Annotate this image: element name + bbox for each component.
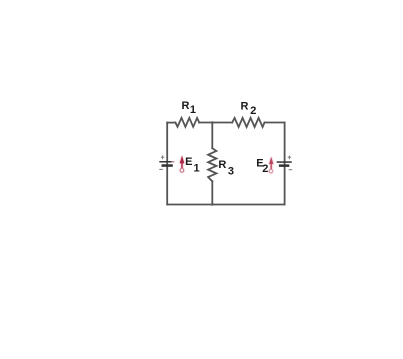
wire: top-right segment xyxy=(265,122,285,124)
emf arrow E1 halo xyxy=(179,155,184,172)
battery E2 short thick plate xyxy=(279,164,289,167)
svg-text:R: R xyxy=(241,100,249,112)
emf arrow E1 xyxy=(180,156,185,173)
battery E2 xyxy=(277,155,293,169)
resistor R1 xyxy=(175,118,199,127)
svg-text:2: 2 xyxy=(262,163,268,175)
battery E1 short thick plate xyxy=(162,164,173,167)
svg-text:R: R xyxy=(218,159,226,171)
wire: bottom horizontal xyxy=(167,204,284,206)
battery E2 long plate xyxy=(277,161,292,163)
svg-text:3: 3 xyxy=(228,166,234,178)
emf arrow E2 xyxy=(269,157,273,173)
wire: right vertical branch xyxy=(284,123,286,205)
battery E1 plus sign xyxy=(161,155,164,159)
battery E1 minus sign xyxy=(159,168,163,170)
resistor R2 xyxy=(232,118,264,127)
wire: top-left segment to R1 xyxy=(167,122,175,124)
svg-text:1: 1 xyxy=(194,163,200,175)
wire: left vertical branch xyxy=(166,123,168,205)
svg-text:E: E xyxy=(185,156,192,168)
resistor R3 xyxy=(208,148,216,181)
svg-text:1: 1 xyxy=(190,104,196,116)
wire: middle branch upper xyxy=(211,123,213,149)
node: bottom junction xyxy=(211,203,214,206)
battery E1 plate pink tip xyxy=(172,161,175,163)
emf arrow E2 halo xyxy=(269,156,274,173)
node: top junction xyxy=(211,121,214,124)
svg-text:R: R xyxy=(182,100,190,112)
wire: top middle segment R1 to R2 xyxy=(199,122,232,124)
battery E2 plus sign xyxy=(288,155,291,159)
battery E1 long plate xyxy=(159,161,171,163)
wire: middle branch lower xyxy=(211,181,213,204)
battery E1 xyxy=(159,155,174,169)
battery E2 minus sign xyxy=(289,169,293,171)
svg-text:2: 2 xyxy=(250,105,256,117)
